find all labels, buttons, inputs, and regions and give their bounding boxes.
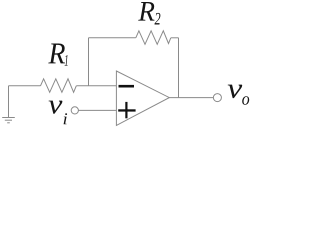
terminal v_o <box>213 94 221 102</box>
ground <box>2 118 15 123</box>
wire feedback up <box>88 38 90 86</box>
label R2 <box>138 2 160 24</box>
wire output <box>169 97 213 99</box>
op-amp non-inverting input plus symbol <box>118 102 135 118</box>
resistor R2 <box>136 31 171 45</box>
wire feedback top left <box>89 37 136 39</box>
wire input left segment <box>9 85 41 87</box>
wire feedback top right <box>171 37 179 39</box>
terminal v_i <box>71 107 78 114</box>
label v_o <box>228 85 250 105</box>
op-amp triangle body <box>116 71 169 125</box>
wire non-inverting input <box>78 109 116 111</box>
wire R1 to inverting input <box>76 85 116 87</box>
label v_i <box>49 101 67 125</box>
resistor R1 <box>41 79 77 93</box>
wire ground stem <box>8 86 10 118</box>
op-amp inverting input minus symbol <box>119 85 135 88</box>
wire feedback down <box>178 38 180 98</box>
label R1 <box>48 43 67 65</box>
